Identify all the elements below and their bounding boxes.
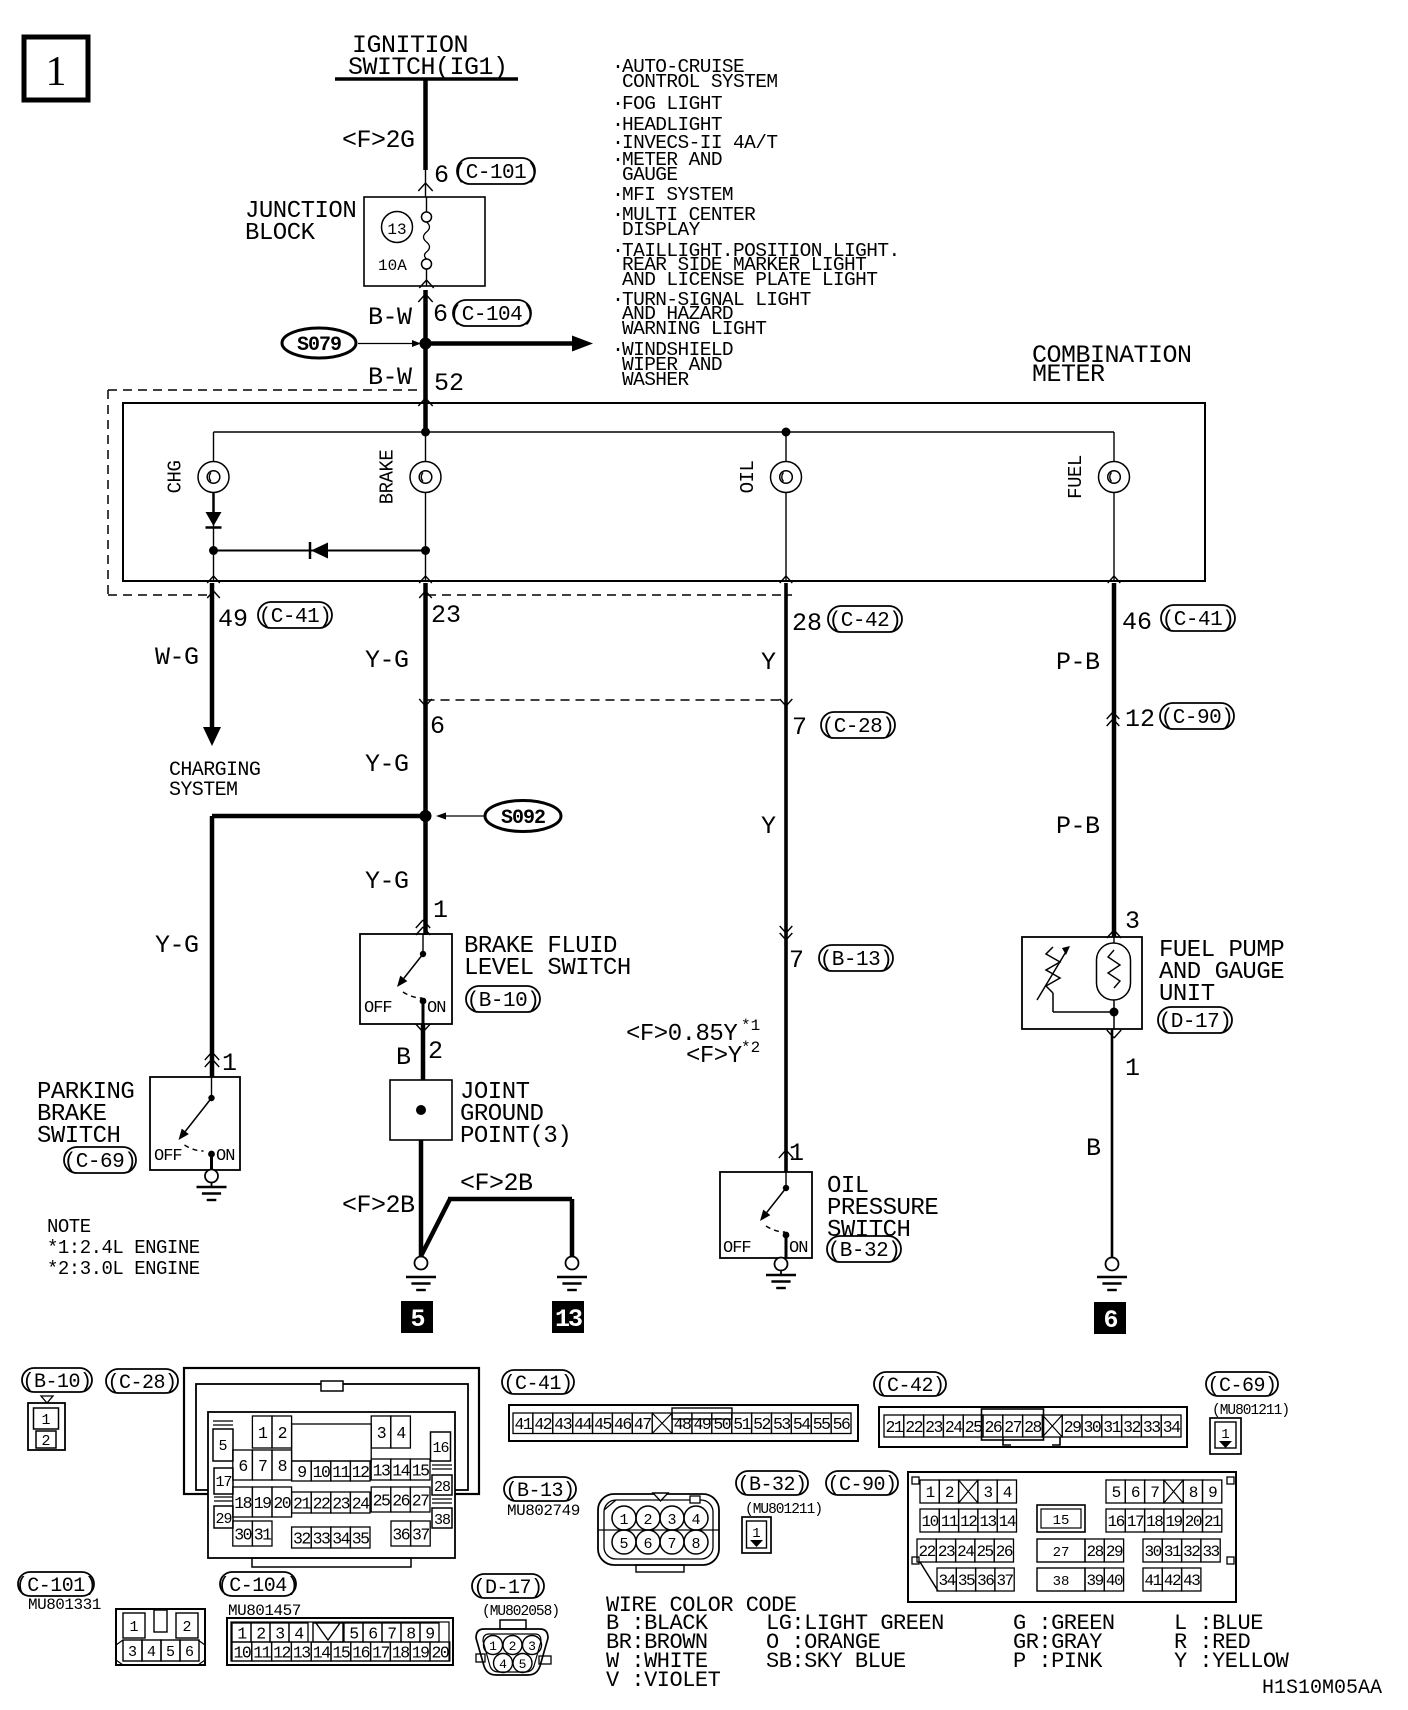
svg-text:17: 17	[1127, 1513, 1144, 1531]
svg-text:13: 13	[555, 1305, 582, 1334]
svg-text:18: 18	[234, 1494, 251, 1513]
svg-text:MU801331: MU801331	[28, 1596, 101, 1614]
svg-text:7: 7	[1150, 1484, 1159, 1502]
svg-text:4: 4	[147, 1644, 156, 1661]
svg-text:42: 42	[1164, 1572, 1181, 1590]
svg-text:5: 5	[519, 1657, 527, 1672]
svg-text:1: 1	[433, 896, 448, 925]
svg-text:*2: *2	[741, 1039, 760, 1057]
svg-text:Y-G: Y-G	[365, 646, 409, 675]
svg-text:9: 9	[297, 1463, 306, 1482]
svg-text:(C-90): (C-90)	[1161, 707, 1234, 730]
svg-text:OFF: OFF	[154, 1147, 182, 1166]
svg-text:28: 28	[434, 1479, 451, 1496]
svg-text:31: 31	[1103, 1418, 1121, 1437]
svg-text:30: 30	[1083, 1418, 1100, 1437]
svg-text:30: 30	[234, 1525, 251, 1544]
svg-text:Y: Y	[761, 648, 776, 677]
svg-text:17: 17	[372, 1643, 389, 1662]
svg-text:<F>2B: <F>2B	[342, 1191, 415, 1220]
svg-text:2: 2	[182, 1619, 191, 1636]
svg-text:45: 45	[594, 1415, 611, 1434]
svg-text:*2:3.0L ENGINE: *2:3.0L ENGINE	[47, 1258, 200, 1280]
svg-text:26: 26	[996, 1543, 1013, 1561]
svg-text:24: 24	[945, 1418, 963, 1437]
svg-text:*1: *1	[741, 1017, 760, 1035]
svg-text:27: 27	[1004, 1418, 1021, 1437]
svg-text:17: 17	[215, 1474, 231, 1491]
svg-text:2: 2	[643, 1512, 652, 1529]
svg-text:1: 1	[752, 1526, 760, 1542]
svg-text:19: 19	[254, 1494, 271, 1513]
svg-text:AND LICENSE PLATE LIGHT: AND LICENSE PLATE LIGHT	[622, 269, 877, 291]
svg-text:33: 33	[1202, 1543, 1219, 1561]
svg-text:31: 31	[254, 1525, 272, 1544]
svg-text:22: 22	[919, 1543, 936, 1561]
svg-text:FOG LIGHT: FOG LIGHT	[622, 93, 722, 115]
svg-text:(MU802058): (MU802058)	[482, 1604, 559, 1620]
svg-text:11: 11	[332, 1463, 350, 1482]
svg-text:4: 4	[691, 1512, 700, 1529]
svg-text:52: 52	[434, 369, 464, 398]
svg-text:BLOCK: BLOCK	[245, 220, 316, 247]
svg-text:7: 7	[667, 1536, 676, 1553]
svg-text:34: 34	[332, 1529, 350, 1548]
svg-text:(C-69): (C-69)	[64, 1151, 137, 1174]
svg-text:3: 3	[128, 1644, 137, 1661]
svg-text:24: 24	[352, 1494, 370, 1513]
svg-text:15: 15	[412, 1461, 429, 1480]
svg-text:18: 18	[392, 1643, 409, 1662]
svg-text:21: 21	[885, 1418, 903, 1437]
svg-text:<F>2B: <F>2B	[460, 1169, 533, 1198]
svg-text:S092: S092	[501, 807, 545, 830]
svg-text:1: 1	[41, 1412, 50, 1429]
svg-text:1: 1	[926, 1484, 935, 1502]
svg-text:43: 43	[1183, 1572, 1200, 1590]
svg-text:25: 25	[976, 1543, 993, 1561]
svg-text:41: 41	[1145, 1572, 1162, 1590]
svg-text:32: 32	[1123, 1418, 1140, 1437]
svg-text:B-W: B-W	[368, 363, 412, 392]
svg-text:16: 16	[352, 1643, 369, 1662]
svg-text:OFF: OFF	[364, 999, 392, 1018]
svg-text:49: 49	[218, 605, 248, 634]
svg-text:POINT(3): POINT(3)	[460, 1123, 571, 1150]
svg-text:36: 36	[977, 1572, 994, 1590]
svg-text:5: 5	[349, 1624, 358, 1643]
svg-text:20: 20	[273, 1494, 290, 1513]
svg-text:32: 32	[293, 1529, 310, 1548]
svg-text:13: 13	[387, 221, 406, 239]
svg-text:(B-10): (B-10)	[467, 990, 540, 1013]
svg-text:DISPLAY: DISPLAY	[622, 219, 701, 241]
svg-text:40: 40	[1106, 1572, 1123, 1590]
svg-text:12: 12	[960, 1513, 977, 1531]
svg-text:4: 4	[499, 1657, 507, 1672]
svg-text:7: 7	[258, 1457, 267, 1476]
svg-text:(C-42): (C-42)	[875, 1375, 944, 1398]
svg-text:28: 28	[1087, 1543, 1104, 1561]
svg-text:5: 5	[1112, 1484, 1121, 1502]
svg-text:52: 52	[753, 1415, 770, 1434]
svg-text:32: 32	[1183, 1543, 1200, 1561]
svg-text:FUEL: FUEL	[1065, 455, 1087, 499]
svg-text:10A: 10A	[378, 257, 407, 275]
svg-text:(C-41): (C-41)	[259, 606, 332, 629]
svg-text:<F>Y: <F>Y	[686, 1043, 742, 1070]
svg-text:28: 28	[792, 609, 822, 638]
svg-text:12: 12	[1125, 705, 1155, 734]
svg-text:20: 20	[1185, 1513, 1202, 1531]
svg-text:2: 2	[428, 1037, 443, 1066]
svg-text:(D-17): (D-17)	[473, 1577, 542, 1600]
svg-text:42: 42	[534, 1415, 551, 1434]
svg-text:3: 3	[275, 1624, 284, 1643]
svg-text:15: 15	[332, 1643, 349, 1662]
svg-text:(C-101): (C-101)	[16, 1575, 97, 1598]
svg-text:NOTE: NOTE	[47, 1216, 91, 1238]
svg-text:1: 1	[129, 1619, 138, 1636]
svg-text:27: 27	[412, 1491, 429, 1510]
svg-text:22: 22	[313, 1494, 330, 1513]
svg-text:31: 31	[1164, 1543, 1181, 1561]
svg-text:21: 21	[1204, 1513, 1221, 1531]
svg-text:24: 24	[957, 1543, 974, 1561]
svg-text:(B-13): (B-13)	[505, 1480, 574, 1503]
svg-text:36: 36	[392, 1525, 409, 1544]
svg-text:2: 2	[256, 1624, 265, 1643]
svg-text:6: 6	[1131, 1484, 1140, 1502]
svg-text:7: 7	[792, 713, 807, 742]
svg-text:B: B	[396, 1043, 411, 1072]
svg-text:14: 14	[313, 1643, 331, 1662]
svg-text:SYSTEM: SYSTEM	[169, 779, 237, 802]
svg-text:W-G: W-G	[155, 643, 199, 672]
svg-text:(B-32): (B-32)	[737, 1474, 806, 1497]
svg-text:Y-G: Y-G	[155, 931, 199, 960]
svg-text:26: 26	[392, 1491, 409, 1510]
svg-text:29: 29	[1106, 1543, 1123, 1561]
svg-text:2: 2	[41, 1433, 50, 1450]
svg-text:B: B	[1086, 1134, 1101, 1163]
svg-text:WASHER: WASHER	[622, 369, 690, 391]
svg-text:33: 33	[313, 1529, 330, 1548]
svg-text:LEVEL SWITCH: LEVEL SWITCH	[464, 955, 631, 982]
svg-text:P :PINK: P :PINK	[1013, 1649, 1103, 1674]
svg-text:MFI SYSTEM: MFI SYSTEM	[622, 184, 733, 206]
svg-text:*1:2.4L ENGINE: *1:2.4L ENGINE	[47, 1237, 200, 1259]
svg-text:5: 5	[410, 1305, 424, 1334]
svg-text:OIL: OIL	[737, 461, 759, 494]
svg-text:1: 1	[489, 1639, 497, 1654]
svg-text:2: 2	[278, 1424, 287, 1443]
svg-text:13: 13	[373, 1461, 390, 1480]
svg-text:MU802749: MU802749	[507, 1502, 580, 1520]
svg-text:UNIT: UNIT	[1159, 981, 1215, 1008]
svg-text:(C-42): (C-42)	[829, 610, 902, 633]
svg-text:30: 30	[1145, 1543, 1162, 1561]
svg-text:23: 23	[938, 1543, 955, 1561]
svg-text:CONTROL SYSTEM: CONTROL SYSTEM	[622, 71, 777, 93]
svg-text:34: 34	[939, 1572, 956, 1590]
svg-text:7: 7	[387, 1624, 396, 1643]
svg-text:WARNING LIGHT: WARNING LIGHT	[622, 318, 766, 340]
svg-text:(B-13): (B-13)	[820, 949, 893, 972]
svg-text:6: 6	[643, 1536, 652, 1553]
svg-text:54: 54	[793, 1415, 811, 1434]
svg-text:16: 16	[432, 1440, 449, 1457]
svg-text:H1S10M05AA: H1S10M05AA	[1262, 1677, 1382, 1700]
svg-text:6: 6	[433, 300, 448, 329]
svg-text:CHG: CHG	[165, 461, 187, 494]
svg-text:14: 14	[392, 1461, 410, 1480]
svg-text:1: 1	[619, 1512, 628, 1529]
svg-text:GAUGE: GAUGE	[622, 164, 678, 186]
svg-text:5: 5	[218, 1438, 227, 1455]
svg-text:10: 10	[233, 1643, 250, 1662]
svg-text:B-W: B-W	[368, 303, 412, 332]
svg-text:SWITCH: SWITCH	[37, 1123, 120, 1150]
svg-text:2: 2	[509, 1639, 517, 1654]
svg-text:(MU801211): (MU801211)	[745, 1502, 822, 1518]
svg-text:S079: S079	[297, 334, 341, 357]
svg-text:(C-41): (C-41)	[1162, 609, 1235, 632]
svg-text:P-B: P-B	[1056, 648, 1100, 677]
svg-text:44: 44	[574, 1415, 592, 1434]
svg-text:56: 56	[833, 1415, 850, 1434]
svg-text:3: 3	[983, 1484, 992, 1502]
svg-text:8: 8	[1189, 1484, 1198, 1502]
svg-text:5: 5	[619, 1536, 628, 1553]
svg-text:29: 29	[1064, 1418, 1081, 1437]
svg-text:ON: ON	[789, 1239, 807, 1258]
svg-text:35: 35	[958, 1572, 975, 1590]
svg-text:BRAKE: BRAKE	[377, 450, 399, 505]
svg-text:6: 6	[1103, 1306, 1117, 1335]
svg-text:55: 55	[813, 1415, 830, 1434]
svg-text:1: 1	[1221, 1427, 1229, 1443]
svg-text:8: 8	[406, 1624, 415, 1643]
svg-text:(C-41): (C-41)	[503, 1373, 572, 1396]
svg-text:23: 23	[925, 1418, 942, 1437]
svg-text:19: 19	[1165, 1513, 1182, 1531]
svg-text:6: 6	[185, 1644, 194, 1661]
svg-text:ON: ON	[216, 1147, 234, 1166]
svg-text:35: 35	[352, 1529, 369, 1548]
svg-text:37: 37	[996, 1572, 1013, 1590]
svg-text:27: 27	[1053, 1545, 1070, 1561]
svg-text:37: 37	[412, 1525, 429, 1544]
svg-text:Y :YELLOW: Y :YELLOW	[1174, 1649, 1290, 1674]
svg-text:49: 49	[693, 1415, 710, 1434]
svg-text:<F>2G: <F>2G	[342, 126, 415, 155]
svg-text:38: 38	[1053, 1574, 1070, 1590]
svg-text:15: 15	[1053, 1513, 1070, 1529]
svg-text:11: 11	[253, 1643, 271, 1662]
svg-text:28: 28	[1024, 1418, 1041, 1437]
svg-text:(C-101): (C-101)	[454, 162, 539, 185]
svg-text:(B-10): (B-10)	[22, 1371, 91, 1394]
svg-text:23: 23	[332, 1494, 349, 1513]
svg-text:10: 10	[313, 1463, 330, 1482]
svg-text:(C-69): (C-69)	[1207, 1375, 1276, 1398]
svg-text:6: 6	[430, 712, 445, 741]
svg-text:46: 46	[614, 1415, 631, 1434]
svg-text:38: 38	[434, 1512, 451, 1529]
svg-text:3: 3	[667, 1512, 676, 1529]
svg-text:9: 9	[1208, 1484, 1217, 1502]
svg-text:3: 3	[377, 1424, 386, 1443]
svg-text:50: 50	[713, 1415, 730, 1434]
svg-text:9: 9	[425, 1624, 434, 1643]
svg-text:25: 25	[965, 1418, 982, 1437]
svg-text:23: 23	[431, 601, 461, 630]
svg-text:13: 13	[979, 1513, 996, 1531]
svg-text:Y: Y	[761, 812, 776, 841]
svg-text:1: 1	[222, 1049, 237, 1078]
svg-text:(MU801211): (MU801211)	[1212, 1403, 1289, 1419]
svg-text:(C-90): (C-90)	[827, 1474, 896, 1497]
svg-text:(C-28): (C-28)	[822, 716, 895, 739]
svg-text:25: 25	[373, 1491, 390, 1510]
svg-text:Y-G: Y-G	[365, 867, 409, 896]
svg-text:34: 34	[1163, 1418, 1181, 1437]
svg-text:14: 14	[999, 1513, 1016, 1531]
svg-text:53: 53	[773, 1415, 790, 1434]
svg-text:11: 11	[941, 1513, 958, 1531]
svg-text:1: 1	[1125, 1054, 1140, 1083]
svg-text:6: 6	[238, 1457, 247, 1476]
svg-text:3: 3	[528, 1639, 536, 1654]
svg-text:19: 19	[412, 1643, 429, 1662]
svg-text:METER: METER	[1032, 360, 1105, 389]
svg-text:21: 21	[293, 1494, 311, 1513]
svg-text:1: 1	[789, 1139, 804, 1168]
svg-text:V :VIOLET: V :VIOLET	[606, 1668, 721, 1693]
svg-text:12: 12	[273, 1643, 290, 1662]
svg-text:13: 13	[293, 1643, 310, 1662]
svg-text:SB:SKY BLUE: SB:SKY BLUE	[766, 1649, 906, 1674]
svg-text:8: 8	[691, 1536, 700, 1553]
svg-text:26: 26	[984, 1418, 1001, 1437]
svg-text:48: 48	[674, 1415, 691, 1434]
svg-text:41: 41	[515, 1415, 533, 1434]
svg-text:3: 3	[1125, 907, 1140, 936]
svg-text:(B-32): (B-32)	[828, 1240, 901, 1263]
svg-text:12: 12	[352, 1463, 369, 1482]
svg-text:33: 33	[1143, 1418, 1160, 1437]
svg-text:OFF: OFF	[723, 1239, 751, 1258]
svg-text:5: 5	[166, 1644, 175, 1661]
svg-text:43: 43	[554, 1415, 571, 1434]
svg-text:20: 20	[431, 1643, 448, 1662]
svg-text:6: 6	[434, 161, 449, 190]
svg-text:46: 46	[1122, 608, 1152, 637]
svg-text:18: 18	[1146, 1513, 1163, 1531]
svg-text:10: 10	[922, 1513, 939, 1531]
svg-text:22: 22	[905, 1418, 922, 1437]
svg-text:(C-28): (C-28)	[107, 1372, 176, 1395]
svg-text:Y-G: Y-G	[365, 750, 409, 779]
svg-text:4: 4	[1003, 1484, 1012, 1502]
svg-text:51: 51	[733, 1415, 751, 1434]
svg-text:1: 1	[46, 49, 67, 95]
svg-text:(D-17): (D-17)	[1159, 1011, 1232, 1034]
svg-text:P-B: P-B	[1056, 812, 1100, 841]
svg-text:29: 29	[215, 1511, 231, 1528]
svg-text:47: 47	[634, 1415, 651, 1434]
svg-text:2: 2	[945, 1484, 954, 1502]
svg-text:16: 16	[1108, 1513, 1125, 1531]
svg-text:(C-104): (C-104)	[450, 304, 535, 327]
svg-text:8: 8	[278, 1457, 287, 1476]
svg-text:6: 6	[368, 1624, 377, 1643]
svg-text:ON: ON	[427, 999, 445, 1018]
svg-text:7: 7	[789, 946, 804, 975]
svg-text:39: 39	[1087, 1572, 1104, 1590]
svg-text:(C-104): (C-104)	[218, 1575, 299, 1598]
